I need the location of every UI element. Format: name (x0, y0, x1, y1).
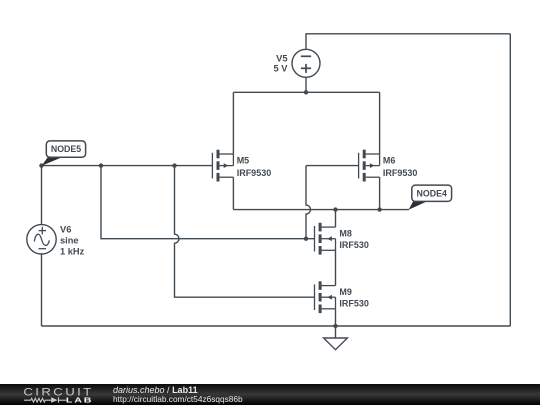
wire: M6 gate vertical with hop over output bus (306, 166, 311, 239)
svg-text:IRF530: IRF530 (339, 298, 369, 308)
svg-text:M5: M5 (237, 155, 250, 165)
wire: M6 source lead up to supply bus (379, 92, 381, 154)
wire: M8 drain lead up to output bus (335, 210, 337, 228)
transistor M6 (PMOS IRF9530) (359, 150, 380, 182)
svg-text:1 kHz: 1 kHz (60, 247, 85, 257)
junction dot: M6 drain on output bus (377, 207, 381, 211)
node NODE5 callout (42, 141, 86, 166)
footer bar (0, 384, 540, 405)
wire: V5 minus terminal to supply bus (305, 78, 307, 93)
svg-text:M9: M9 (339, 287, 352, 297)
junction dot: NODE5 anchor (39, 163, 43, 167)
voltage source V5 (5 V battery) (292, 49, 320, 77)
wire: M6 drain lead down to output bus (379, 177, 381, 209)
wire: right side rail (509, 34, 511, 326)
junction dot: V5 minus on supply bus (304, 90, 308, 94)
wire: bottom ground rail (42, 325, 511, 327)
wire: M9 gate from input bus branch at x=174.5 with hop (175, 166, 315, 298)
wire: V6 top lead up to input bus (41, 166, 43, 225)
junction dot: M6 gate joins M8 gate wire (304, 237, 308, 241)
svg-text:V5: V5 (276, 54, 287, 64)
junction dot: input bus / M9 gate branch (172, 163, 176, 167)
wire: M9 source lead down to ground rail (335, 309, 337, 326)
wire: top rail from V5 plus terminal to right side (306, 34, 510, 49)
svg-text:V6: V6 (60, 225, 71, 235)
transistor M5 (PMOS IRF9530) (212, 150, 233, 182)
node NODE4 callout (409, 185, 452, 210)
ground symbol stub (335, 326, 337, 338)
wire: M5 drain lead down to output bus (232, 177, 234, 209)
wire: M6 gate horizontal segment (306, 165, 359, 167)
junction dot: input bus / M8 gate branch (99, 163, 103, 167)
svg-text:sine: sine (60, 236, 79, 246)
svg-text:IRF9530: IRF9530 (383, 168, 418, 178)
CircuitLab logo (0, 384, 110, 405)
transistor M9 (NMOS IRF530) (315, 281, 336, 313)
svg-text:M6: M6 (383, 155, 396, 165)
svg-text:M8: M8 (339, 229, 352, 239)
svg-text:NODE5: NODE5 (51, 144, 81, 154)
svg-text:IRF9530: IRF9530 (237, 168, 272, 178)
wire: output bus NODE4 (M5 drain to M6 drain to callout) (233, 209, 409, 211)
junction dot: M8 drain on output bus (333, 207, 337, 211)
wire: M8 gate from input bus branch at x=101 (101, 166, 315, 239)
wire: M8 source to M9 drain (335, 250, 337, 285)
wire: supply bus between M5 and M6 sources (233, 91, 379, 93)
svg-text:NODE4: NODE4 (417, 188, 447, 198)
junction dot: ground on bottom rail (333, 324, 337, 328)
svg-text:5 V: 5 V (274, 64, 289, 74)
wire: V6 bottom lead down to ground rail (41, 254, 43, 326)
footer credit text (113, 385, 198, 395)
svg-text:LAB: LAB (66, 396, 93, 404)
svg-text:IRF530: IRF530 (339, 240, 369, 250)
wire: NODE5 input bus to M5 gate (42, 165, 213, 167)
wire: M5 source lead up to supply bus (232, 92, 234, 154)
transistor M8 (NMOS IRF530) (315, 223, 336, 255)
voltage source V6 (sine 1 kHz) (27, 225, 56, 254)
ground symbol triangle (324, 338, 348, 350)
